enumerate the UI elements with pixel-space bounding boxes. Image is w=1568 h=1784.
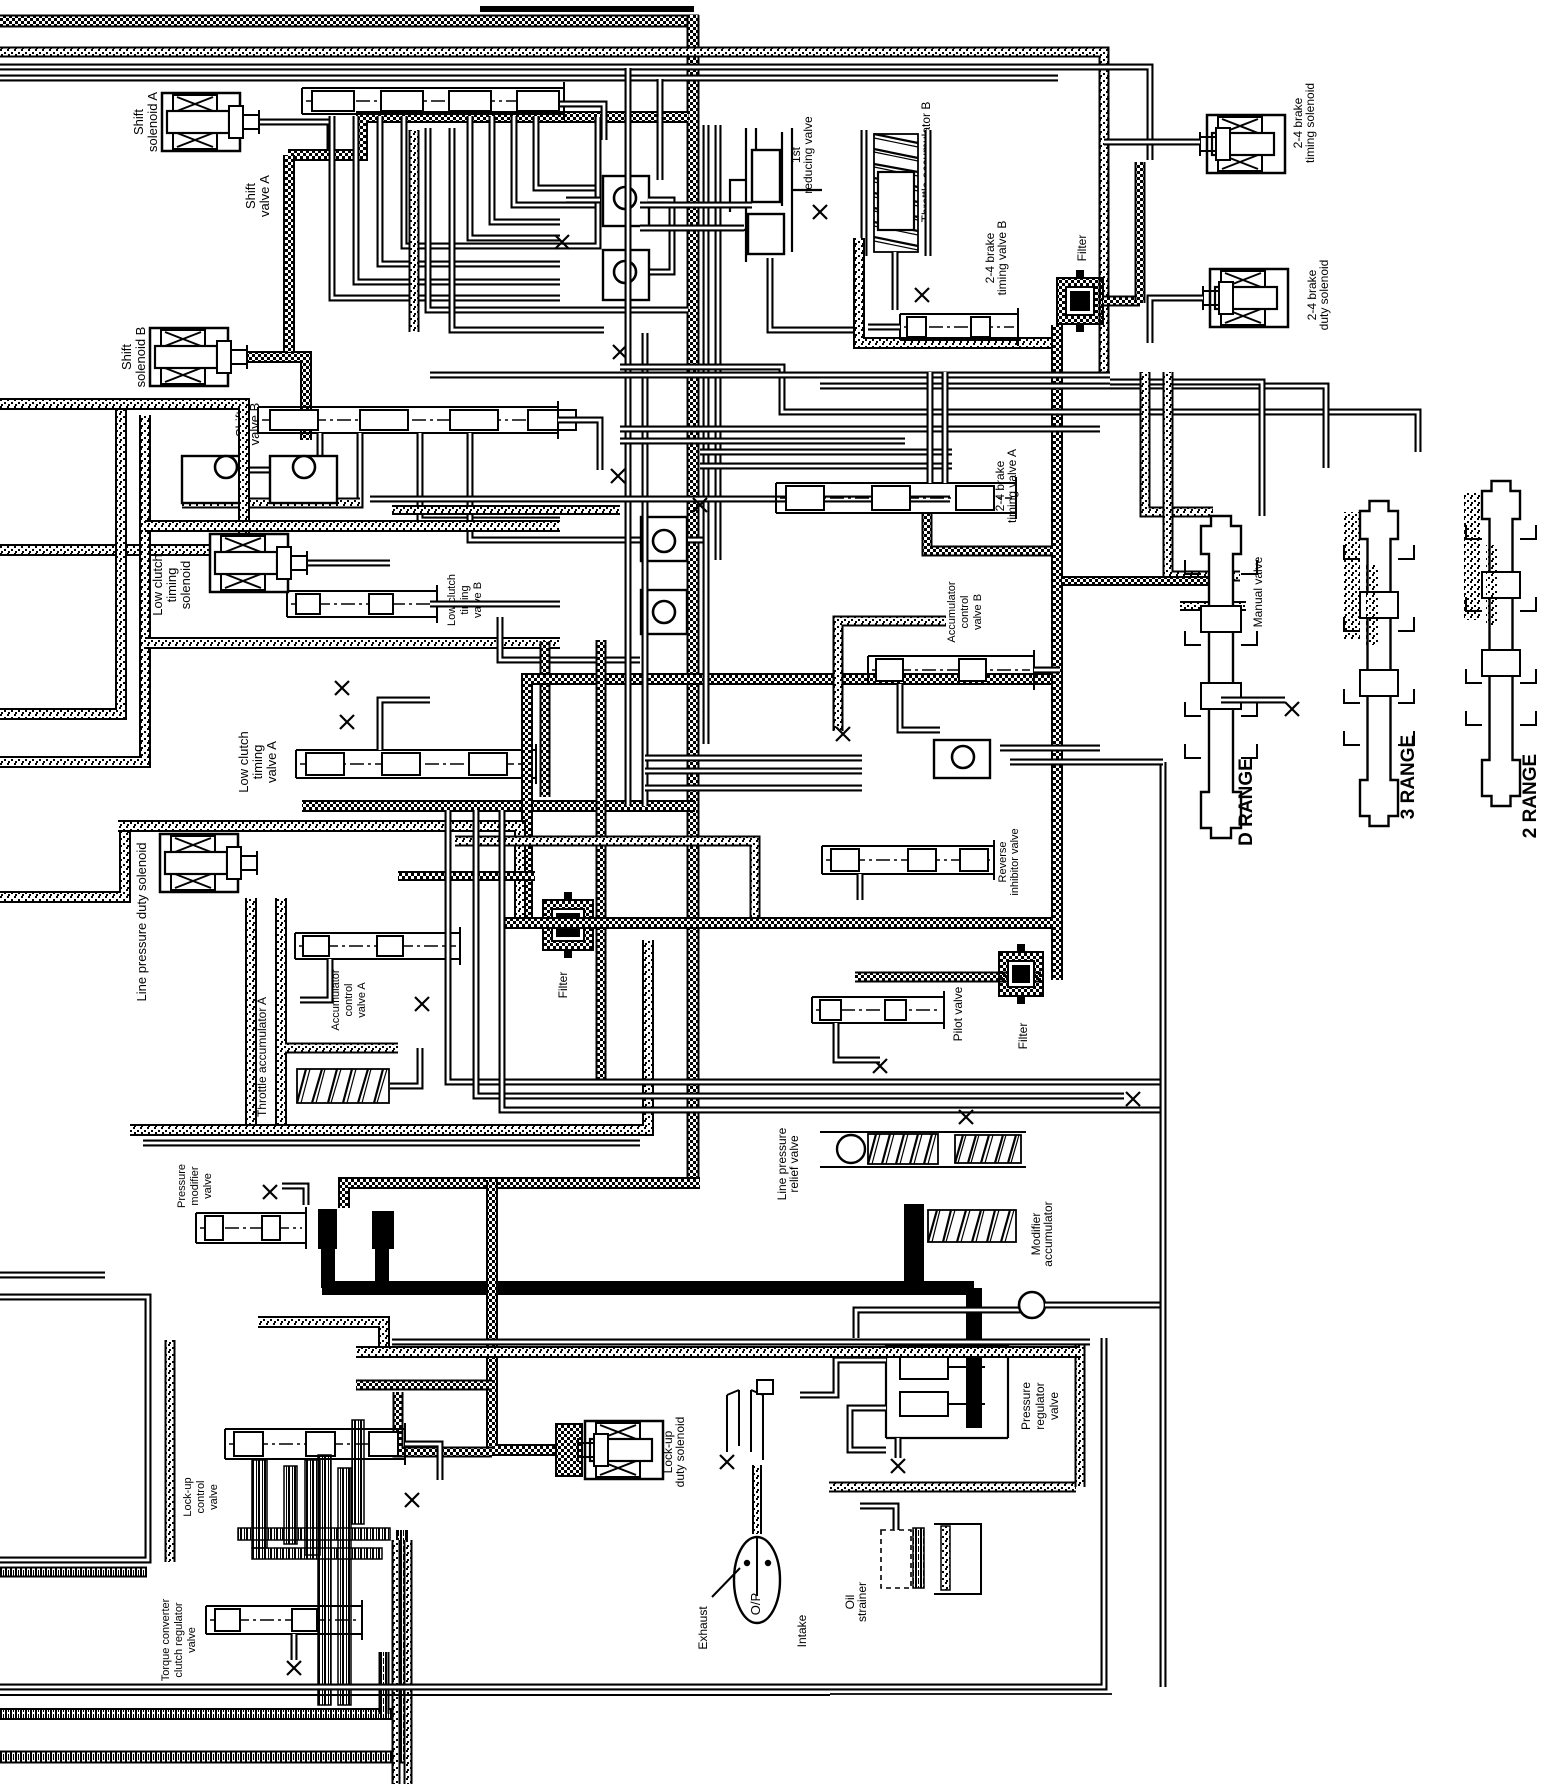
wire: center vert pipe 1 [625, 68, 632, 806]
pipe: black main bus [322, 1281, 974, 1295]
pipe: preg enclosure bottom [829, 1482, 1076, 1493]
label pilot filter [1016, 1023, 1030, 1050]
svg-text:clutch regulator: clutch regulator [173, 1602, 185, 1678]
wire: ball to frame [1045, 1302, 1163, 1309]
wire: 24A feeds2 [942, 372, 949, 483]
solenoid: lock-up duty solenoid body [578, 1421, 663, 1479]
spool: accumulator control valve B [868, 650, 1034, 690]
pipe: lockup horizontal checker [356, 1380, 492, 1391]
label pressure regulator valve [1019, 1382, 1061, 1430]
pipe: left upper box [0, 404, 244, 550]
svg-text:valve A: valve A [257, 175, 272, 217]
svg-text:timing: timing [164, 568, 179, 603]
label accumulator control valve A [330, 969, 368, 1030]
pipe: stipple band y510 [392, 505, 620, 515]
valve: line pressure relief valve [837, 1135, 865, 1163]
svg-text:Filter: Filter [1016, 1023, 1030, 1050]
wire: strainer up [860, 1506, 896, 1530]
spring: relief left [868, 1134, 938, 1164]
svg-text:valve: valve [1047, 1392, 1061, 1420]
pipe: left nested band 2 [0, 415, 145, 762]
svg-text:Shift: Shift [243, 183, 258, 209]
accumulator: throttle accumulator A [297, 1069, 389, 1103]
wire: valve A passage 6 [452, 128, 604, 330]
wire: acvB spring [1034, 667, 1060, 674]
wire: 1st red down [770, 258, 860, 330]
pipe: pump suction [752, 1465, 762, 1534]
wire: 24 duty sol stem [1150, 298, 1203, 343]
pipe: low clutch enclosure bottom [145, 637, 560, 649]
pipe: black pm blocks [318, 1209, 337, 1249]
label center filter [556, 972, 570, 999]
wire: accum B left wall [861, 130, 868, 256]
spool: lock-up control valve [225, 1423, 405, 1465]
wire: relief outline 2 [820, 1166, 1026, 1168]
wire: preg top [856, 1310, 1021, 1338]
wire: top thin pair 1 [0, 67, 1150, 160]
wire: mv X port [1221, 697, 1285, 704]
svg-text:Low clutch: Low clutch [446, 574, 458, 626]
check ball: shift valve B right [270, 456, 337, 503]
wire: preg port left 2 [850, 1408, 886, 1450]
wire: valve A box [595, 117, 602, 212]
spool: torque converter clutch regulator valve [206, 1600, 362, 1640]
pipe: 3 range stipple [1344, 512, 1360, 640]
svg-text:control: control [343, 983, 355, 1016]
pipe: black drop to regulator [966, 1288, 982, 1428]
wire: 1st red feeds [640, 202, 752, 209]
svg-text:Shift: Shift [131, 109, 146, 135]
wire: bus y429 [620, 426, 1100, 433]
check ball: shift valve A upper [603, 176, 649, 226]
pipe: valve B trunk link [283, 155, 295, 352]
pipe: strainer stipple col 1 [392, 1540, 401, 1784]
label shift solenoid A [131, 92, 160, 152]
pipe: checker mv link [1062, 576, 1215, 586]
spool: shift valve A [302, 82, 564, 120]
wire: bottom hairline [0, 1694, 830, 1696]
wire: valve B passage 2 [250, 433, 360, 505]
pipe: lcA bottom band [302, 800, 695, 812]
svg-text:duty solenoid: duty solenoid [673, 1417, 687, 1488]
svg-text:timing solenoid: timing solenoid [1303, 83, 1317, 163]
accumulator: modifier accumulator [928, 1210, 1016, 1242]
svg-text:control: control [959, 595, 971, 628]
wire: valve A right link [560, 104, 604, 140]
svg-text:inhibitor valve: inhibitor valve [1009, 828, 1021, 895]
wire: lc bus 2 [645, 768, 862, 775]
wire: bottom hairline 2 [830, 1693, 1112, 1695]
accumulator: throttle accumulator B [895, 193, 897, 195]
wire: bus y386 [820, 386, 1326, 468]
wire: accum B right wall [925, 130, 932, 256]
svg-text:timing: timing [459, 585, 471, 614]
pipe: checker drop to lockup [492, 1180, 556, 1450]
svg-text:Torque converter: Torque converter [160, 1598, 172, 1681]
wire: acvB drop [900, 684, 940, 730]
wire: mid horizontal 3 [700, 463, 952, 470]
check ball: center lower [641, 590, 687, 634]
svg-text:modifier: modifier [189, 1166, 201, 1205]
spool: 2-4 brake timing valve B [900, 308, 1018, 346]
pipe: lpd enclosure top [118, 826, 520, 917]
wire: lc bus 1 [645, 755, 862, 762]
svg-text:valve B: valve B [972, 594, 984, 630]
pipe: checker mid-left vert [540, 641, 551, 797]
node: exhaust X acvB [836, 727, 850, 741]
svg-text:valve B: valve B [472, 582, 484, 618]
wire: valve A nest 1 [470, 116, 560, 238]
wire: acc bus 3 [502, 810, 1160, 1110]
svg-text:valve: valve [186, 1627, 198, 1653]
label 1st reducing valve [789, 116, 815, 194]
svg-text:valve A: valve A [356, 982, 368, 1018]
pipe: 24A to trunk [927, 514, 1053, 551]
pipe: top dark edge [480, 6, 694, 12]
wire: lcB passages [430, 601, 560, 608]
wire: rev-inh to frame 2 [1010, 759, 1163, 766]
pipe: sol B to valve B [248, 357, 306, 440]
pipe: right checker main [1051, 325, 1063, 980]
pipe: accum B leg [859, 238, 1053, 343]
label exhaust [696, 1606, 710, 1650]
wire: valve A to balls [566, 197, 600, 204]
svg-text:Intake: Intake [795, 1614, 809, 1647]
wire: right tall frame [1160, 762, 1167, 1687]
wire: band edge line [392, 1339, 1090, 1346]
wire: center ball link [688, 537, 706, 544]
wire: valve A nest 4 [536, 116, 598, 188]
pipe: shift valve A inlet band [288, 117, 688, 155]
wire: pilot drop [836, 1023, 880, 1060]
pipe: bottom band vert 2 [396, 1530, 408, 1757]
pipe: main vertical trunk [687, 15, 700, 1180]
pipe: left nested band 1 [0, 410, 121, 714]
spool: accumulator control valve A [295, 927, 460, 965]
pipe: pilot valve band [855, 972, 1041, 983]
solenoid: shift solenoid A [162, 93, 259, 151]
wire: valve A passage 2 [356, 116, 560, 282]
svg-text:Filter: Filter [1075, 235, 1089, 262]
wire: bus y441 [620, 438, 905, 445]
label 2-4 brake timing valve B [983, 221, 1009, 296]
label modifier accumulator [1029, 1201, 1055, 1266]
wire: valve A passage 4 [404, 116, 598, 246]
svg-text:D RANGE: D RANGE [1236, 758, 1257, 846]
spring: relief right [955, 1135, 1021, 1163]
label low clutch timing valve B [446, 574, 484, 626]
wire: center vert pipe 1b [657, 79, 664, 180]
check ball: acv B [934, 740, 990, 778]
pipe: black riser to accumulator [904, 1204, 924, 1288]
svg-text:accumulator: accumulator [1041, 1201, 1055, 1266]
wire: accum A right [390, 1048, 420, 1086]
svg-text:valve: valve [208, 1484, 220, 1510]
wire: acc bus 2 [476, 810, 1124, 1096]
label pilot valve [951, 986, 965, 1041]
svg-text:3 RANGE: 3 RANGE [1398, 735, 1419, 819]
pipe: bottom band 1 [0, 1708, 397, 1720]
wire: mid horizontal 2 [700, 449, 952, 456]
spool: 2-4 brake timing valve A [776, 477, 1016, 519]
pipe: low clutch enclosure top [145, 520, 560, 532]
pipe: acvB enclosure [838, 621, 946, 731]
wire: preg port left 1 [800, 1360, 886, 1395]
wire: valve B passage 3 [420, 433, 560, 520]
label lock-up control valve [182, 1477, 220, 1516]
node: exhaust X tccr [287, 1661, 301, 1675]
label throttle accumulator A [255, 997, 269, 1117]
label low clutch timing valve A [236, 731, 279, 792]
label accumulator control valve B [946, 581, 984, 642]
svg-text:Shift: Shift [119, 344, 134, 370]
svg-text:duty solenoid: duty solenoid [1317, 260, 1331, 331]
pipe: bottom band vert 1 [379, 1652, 390, 1714]
valve: lock-up control valve hatch block [238, 1420, 390, 1705]
wire: center vert pipe 3 [703, 125, 710, 744]
node: exhaust X preg [891, 1459, 905, 1473]
node: exhaust X pm [263, 1185, 277, 1199]
spool: reverse inhibitor valve [822, 840, 994, 880]
pipe: top supply band [0, 15, 699, 28]
label top filter [1075, 235, 1089, 262]
svg-text:solenoid A: solenoid A [145, 92, 160, 152]
svg-text:O/P: O/P [748, 1593, 763, 1615]
node: exhaust X below valve A [613, 345, 627, 359]
label low clutch timing solenoid [150, 554, 193, 615]
svg-text:Low clutch: Low clutch [150, 554, 165, 615]
pipe: right stipple L1 [1145, 372, 1213, 512]
pipe: lpd vert 1 [245, 898, 257, 1124]
wire: relief outline [820, 1131, 1026, 1133]
node: exhaust X lcA 2 [335, 681, 349, 695]
wire: 1st red feed 2 [640, 225, 744, 232]
label 2 RANGE [1520, 754, 1541, 838]
pipe: bottom band 2 [0, 1751, 404, 1764]
pipe: stipple col from lpd [165, 1340, 176, 1562]
wire: lc sol stem [308, 560, 390, 567]
valve: 1st reducing valve body [724, 128, 822, 262]
wire: valve B passage 4 [470, 433, 688, 540]
svg-text:solenoid B: solenoid B [133, 327, 148, 388]
spool: low clutch timing valve B [287, 585, 437, 623]
wire: bus y375 [430, 372, 1110, 379]
pipe: 2 range stipple [1464, 492, 1480, 620]
filter: pilot filter [999, 944, 1043, 1004]
label shift solenoid B [119, 327, 148, 388]
pipe: filter top right link [1103, 296, 1140, 307]
pipe: filter band [500, 917, 1053, 929]
node: intake X [720, 1455, 734, 1469]
svg-text:Low clutch: Low clutch [236, 731, 251, 792]
wire: rev inh ports [857, 874, 864, 900]
pipe: intake fork [727, 1380, 773, 1460]
pipe: checker bottom stubs [398, 871, 535, 881]
svg-text:valve: valve [202, 1173, 214, 1199]
pipe: black drop A [321, 1245, 335, 1288]
wire: preg left ports [840, 1349, 886, 1356]
check ball: shift valve B left [182, 456, 244, 503]
pipe: lockup checker U [398, 1392, 492, 1452]
pipe: left bottom band [0, 1567, 147, 1578]
svg-text:Exhaust: Exhaust [696, 1606, 710, 1650]
node: exhaust X valve A [555, 235, 569, 249]
wire: lc bus 3 [645, 785, 862, 792]
svg-text:Filter: Filter [556, 972, 570, 999]
svg-text:Reverse: Reverse [997, 842, 1009, 883]
pipe: black land 1 [326, 1227, 328, 1229]
spool: low clutch timing valve A [296, 744, 536, 784]
wire: exhaust leader [712, 1568, 740, 1597]
wire: valve A nest 3 [514, 116, 598, 205]
valve: shift valve A body [302, 82, 564, 120]
svg-text:Pressure: Pressure [1019, 1382, 1033, 1430]
svg-text:Pilot valve: Pilot valve [951, 986, 965, 1041]
pipe: black drop B [375, 1245, 389, 1288]
node: exhaust X relief [959, 1110, 973, 1124]
wire: top thin pair 2 [0, 75, 1058, 82]
accumulator: throttle accum B coil [874, 134, 918, 252]
label shift valve A [243, 175, 272, 217]
wire: valve A nest 2 [492, 116, 560, 222]
component: oil strainer [881, 1524, 981, 1594]
pipe: stipple bus y841 [455, 841, 755, 917]
label line pressure relief valve [775, 1127, 801, 1200]
label 2-4 brake timing solenoid [1291, 83, 1317, 163]
pipe: checker col x601 [596, 640, 607, 1080]
pipe: long band y1352 [356, 1346, 1080, 1358]
pipe: accum A enclosure top [285, 1043, 398, 1054]
label 2-4 brake duty solenoid [1305, 260, 1331, 331]
wire: left frame inner [0, 1272, 105, 1279]
svg-text:solenoid: solenoid [178, 561, 193, 609]
wire: tccr drop [291, 1634, 298, 1660]
pipe: preg enclosure right [1075, 1340, 1086, 1487]
svg-text:Pressure: Pressure [176, 1164, 188, 1208]
spool: manual valve [1185, 516, 1257, 838]
spool: shift valve B [258, 401, 576, 439]
solenoid: line pressure duty solenoid [160, 834, 257, 892]
wire: center vert pipe 2 [642, 333, 649, 806]
svg-text:Throttle accumulator A: Throttle accumulator A [255, 997, 269, 1117]
wire: valve A passage 3 [380, 116, 560, 264]
node: exhaust X lcA 1 [340, 715, 354, 729]
svg-text:control: control [195, 1480, 207, 1513]
label intake [795, 1614, 809, 1647]
node: exhaust X lockup [405, 1493, 419, 1507]
wire: valve B passage 1 [240, 433, 320, 470]
svg-text:Line pressure duty solenoid: Line pressure duty solenoid [134, 843, 149, 1002]
wire: left frame pair [0, 1297, 148, 1560]
solenoid: low clutch timing solenoid [210, 534, 307, 592]
pipe: below valve B band [182, 498, 360, 509]
node: exhaust X valve B [611, 469, 625, 483]
wire: valve A passage 5 [428, 128, 688, 310]
wire: manual valve feed [1110, 382, 1262, 516]
solenoid: 2-4 brake timing solenoid [1200, 115, 1285, 173]
wire: accum B stem [892, 252, 899, 310]
wire: lockup spring [405, 1444, 440, 1480]
label oil strainer [843, 1582, 869, 1622]
filter: top filter [1057, 270, 1103, 332]
wire: 24A feeds [927, 372, 934, 483]
node: exhaust X acvA [415, 997, 429, 1011]
svg-text:timing valve B: timing valve B [995, 221, 1009, 296]
pipe: right checker upper [1135, 162, 1146, 303]
svg-text:valve A: valve A [264, 741, 279, 783]
node: exhaust X pilot [873, 1059, 887, 1073]
pipe: left lower stub [0, 823, 125, 897]
pipe: lpd vert 2 [275, 898, 287, 1124]
pipe: long stipple mid band [130, 940, 648, 1130]
solenoid: lock-up duty solenoid [556, 1424, 582, 1476]
spool: pilot valve [812, 991, 944, 1029]
wire: 24B left [868, 324, 900, 331]
check ball: shift valve A lower [603, 250, 649, 300]
accumulator: throttle accum B piston [878, 172, 914, 230]
pipe: valve A stipple leg [409, 130, 420, 332]
wire: pm top link [282, 1186, 306, 1205]
wire: ball link [648, 200, 672, 272]
wire: rev-inh to frame 1 [1000, 745, 1100, 752]
valve: pressure regulator valve [886, 1345, 1008, 1438]
filter: center filter [543, 892, 593, 958]
spool: pressure modifier valve [196, 1207, 306, 1249]
solenoid: shift solenoid B [150, 328, 247, 386]
check ball: center upper [641, 517, 687, 561]
wire: shift sol A out [260, 122, 330, 152]
pipe: lockup feed stipple [258, 1322, 384, 1352]
label shift valve B [233, 403, 262, 446]
wire: center vert pipe 4 [715, 125, 722, 560]
node: exhaust X mv [1285, 702, 1299, 716]
spool: 2 range [1466, 481, 1536, 806]
pipe: strainer stipple col 2 [404, 1540, 413, 1784]
pipe: checker col x527 [527, 679, 1051, 917]
solenoid: 2-4 brake duty solenoid [1203, 269, 1288, 327]
label D RANGE [1236, 758, 1257, 846]
pipe: checker frame pm [344, 1183, 700, 1208]
spool: 3 range [1344, 501, 1414, 826]
wire: 24 timing sol stem [1104, 139, 1200, 146]
label 3 RANGE [1398, 735, 1419, 819]
wire: lcA up link [380, 700, 430, 750]
label 2-4 brake timing valve A [993, 449, 1019, 523]
wire: bottom thin bus [0, 1338, 1104, 1687]
component: oil pump O/P [734, 1536, 780, 1623]
wire: preg drop [895, 1438, 902, 1458]
label torque converter clutch regulator valve [160, 1598, 198, 1681]
label reverse inhibitor valve [997, 828, 1021, 895]
wire: acvA ports [300, 959, 330, 1000]
node: exhaust X bus right [1126, 1092, 1140, 1106]
svg-text:reducing valve: reducing valve [801, 116, 815, 194]
check ball: regulator outlet [1019, 1292, 1045, 1318]
svg-text:Lock-up: Lock-up [182, 1477, 194, 1516]
svg-text:2 RANGE: 2 RANGE [1520, 754, 1541, 838]
pipe: right stipple L2 [1168, 372, 1240, 576]
wire: below stipple band [143, 1140, 640, 1147]
label throttle accumulator B [919, 102, 933, 223]
svg-text:Accumulator: Accumulator [946, 581, 958, 642]
pipe: top second band [0, 52, 1104, 372]
wire: valve A passage 1 [332, 116, 560, 298]
wire: long mid horizontal [370, 496, 950, 503]
label manual valve [1251, 556, 1265, 627]
wire: acc bus 1 [448, 810, 1160, 1082]
label line pressure duty solenoid [134, 843, 149, 1002]
svg-text:strainer: strainer [855, 1582, 869, 1622]
